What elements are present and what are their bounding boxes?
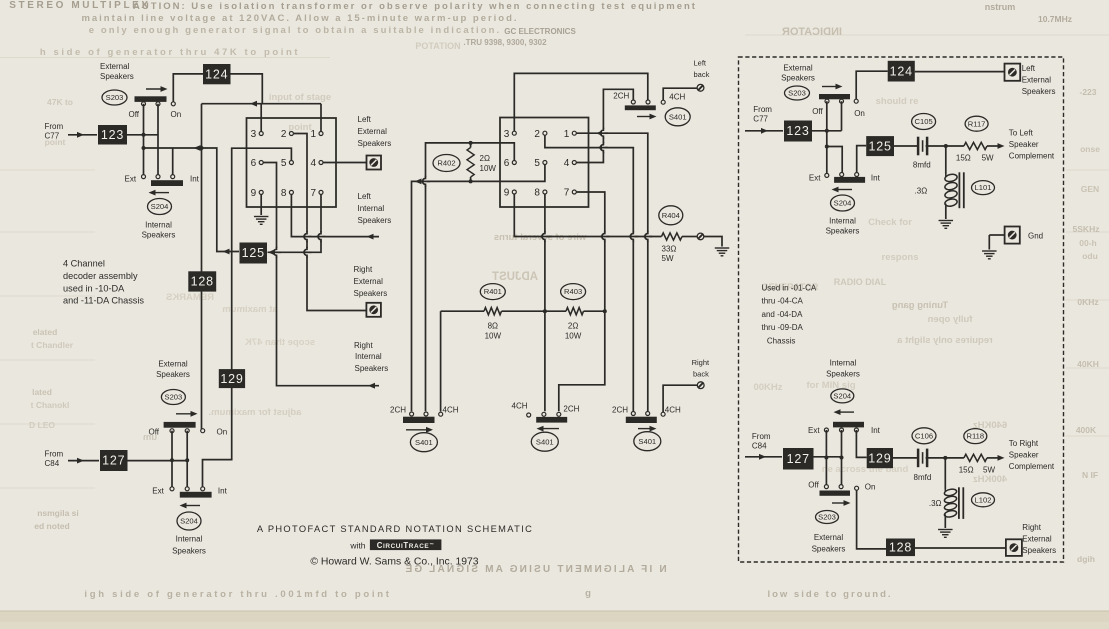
svg-text:8mfd: 8mfd [913, 161, 931, 170]
wire 125 to C105 [894, 145, 917, 147]
svg-text:at maximum: at maximum [222, 304, 277, 315]
wire 4CH to Right back terminal [663, 385, 697, 412]
svg-text:9: 9 [251, 188, 257, 199]
svg-text:Speaker: Speaker [1009, 140, 1039, 149]
svg-text:Internal: Internal [145, 221, 172, 230]
svg-text:t Chanokl: t Chanokl [31, 400, 70, 410]
svg-text:6: 6 [251, 158, 257, 169]
wire grid2 pin8 down to middle S401 [544, 195, 546, 412]
svg-text:Int: Int [871, 426, 881, 435]
wire pole vertical (upper-right) [841, 101, 843, 131]
wire Off terminals down to Ext bar [171, 431, 173, 487]
wire grid2 pin4 to top S401 2CH [576, 89, 633, 162]
svg-text:Speakers: Speakers [358, 139, 392, 148]
svg-text:400KHz: 400KHz [973, 474, 1008, 485]
svg-text:R402: R402 [437, 159, 455, 168]
svg-text:5W: 5W [662, 254, 674, 263]
inductor L101 label [972, 181, 995, 195]
svg-text:10.7MHz: 10.7MHz [1038, 14, 1072, 24]
svg-text:S401: S401 [536, 437, 554, 446]
svg-text:g: g [585, 588, 591, 599]
svg-text:C84: C84 [45, 459, 60, 468]
svg-text:9: 9 [504, 188, 510, 199]
svg-text:5SKHz: 5SKHz [1073, 224, 1100, 234]
resistor R117 [964, 142, 987, 149]
svg-text:and -11-DA Chassis: and -11-DA Chassis [63, 296, 144, 306]
switch S203 (upper-left) [102, 90, 127, 105]
svg-text:Speakers: Speakers [826, 370, 860, 379]
terminal Gnd [1005, 227, 1020, 244]
svg-text:2Ω: 2Ω [480, 154, 490, 163]
S204 actuation arrow [153, 192, 169, 194]
switch S203 (lower-right) [816, 511, 839, 524]
svg-text:Speakers: Speakers [156, 370, 190, 379]
svg-text:maintain line voltage at 120VA: maintain line voltage at 120VAC. Allow a… [81, 13, 518, 24]
wire node row y104 [202, 103, 322, 105]
svg-text:From: From [752, 432, 771, 441]
svg-text:S204: S204 [180, 517, 198, 526]
svg-text:To Right: To Right [1009, 439, 1039, 448]
svg-text:onse: onse [1080, 144, 1100, 154]
svg-text:2CH: 2CH [613, 92, 629, 101]
svg-text:STEREO MULTIPLEX: STEREO MULTIPLEX [9, 0, 150, 11]
svg-text:7: 7 [310, 188, 316, 199]
inductor L101 [945, 146, 947, 174]
wire 129 to C106 [893, 457, 917, 459]
wire Off/Ext vertical [143, 104, 145, 177]
svg-text:4CH: 4CH [443, 406, 459, 415]
svg-text:40KH: 40KH [1077, 359, 1099, 369]
circuitrace box 125 (right) [866, 136, 894, 156]
svg-text:requires only slight a: requires only slight a [897, 335, 993, 346]
svg-text:5W: 5W [982, 154, 994, 163]
svg-text:15Ω: 15Ω [956, 154, 971, 163]
wire crossover jogs [306, 232, 309, 240]
wire 123 to switch (right) [812, 130, 842, 132]
S203 lower-left terminals [170, 429, 174, 433]
wire On to 128 (right) [857, 490, 886, 549]
ground (L101) [939, 221, 954, 229]
svg-text:Ext: Ext [152, 486, 164, 495]
svg-text:.3Ω: .3Ω [929, 499, 942, 508]
svg-text:adjust for maximum.: adjust for maximum. [209, 407, 302, 418]
svg-text:125: 125 [868, 139, 891, 153]
svg-text:00-h: 00-h [1079, 238, 1096, 248]
svg-text:7: 7 [564, 188, 570, 199]
ground (grid1 pin9) [254, 217, 269, 225]
svg-text:10W: 10W [480, 164, 497, 173]
connector grid 2 outline [500, 118, 589, 208]
svg-text:47K to: 47K to [47, 97, 73, 107]
svg-text:Speakers: Speakers [142, 231, 176, 240]
terminal Right External Speakers (right section) [1006, 539, 1022, 556]
svg-text:R117: R117 [968, 119, 986, 128]
svg-text:00KHz: 00KHz [753, 382, 782, 393]
svg-text:On: On [171, 110, 182, 119]
wire grid1 pin2 to Right External Speakers [293, 134, 366, 311]
svg-text:ne across the band: ne across the band [822, 464, 909, 475]
ground (L102) [938, 530, 953, 538]
S203 arrow (upper-right) [822, 86, 838, 88]
switch S401 oval (bottom-middle) [531, 432, 558, 451]
S203 arrow (lower-left) [176, 413, 193, 415]
svg-text:External: External [783, 64, 813, 73]
svg-text:Ext: Ext [125, 175, 137, 184]
circuitrace box 124 (left) [203, 64, 231, 84]
svg-text:3: 3 [251, 129, 257, 140]
svg-text:External: External [814, 533, 844, 542]
svg-text:C77: C77 [45, 132, 60, 141]
wire From C77 into 123 [68, 134, 97, 136]
svg-text:GC ELECTRONICS: GC ELECTRONICS [504, 27, 576, 36]
wire Int to 125 (right) [857, 146, 867, 173]
svg-text:Check for: Check for [868, 217, 912, 228]
wire 124 to Left External Speakers terminal [915, 71, 1005, 73]
wire 124 to node row [231, 74, 263, 104]
S204 arrow (lower-right) [838, 411, 854, 413]
svg-text:Int: Int [871, 174, 881, 183]
svg-text:© Howard W. Sams & Co., Inc. 1: © Howard W. Sams & Co., Inc. 1973 [310, 556, 478, 567]
wire grid1 pin 3 up [260, 104, 262, 132]
svg-text:2CH: 2CH [612, 406, 628, 415]
S203 arrow (lower-right) [832, 502, 846, 504]
svg-text:Internal: Internal [176, 535, 203, 544]
svg-text:Ext: Ext [809, 174, 821, 183]
wire R401/R403 row [440, 311, 442, 411]
svg-text:4CH: 4CH [512, 402, 528, 411]
svg-text:10W: 10W [565, 332, 582, 341]
circuitrace box 125 (left) [240, 243, 268, 264]
svg-text:S203: S203 [788, 89, 806, 98]
wire grid2 pin3 to top S401 [514, 73, 648, 131]
svg-text:123: 123 [786, 124, 809, 138]
resistor R402 label [433, 155, 460, 172]
svg-text:Right: Right [692, 358, 710, 367]
svg-text:Complement: Complement [1009, 152, 1055, 161]
svg-text:8mfd: 8mfd [914, 473, 932, 482]
switch bar S401 bottom-middle [536, 417, 567, 423]
svg-text:To Left: To Left [1009, 129, 1034, 138]
svg-text:GEN: GEN [1081, 184, 1099, 194]
resistor R403 label [561, 284, 586, 300]
wire node to Ext bar terminal [827, 147, 842, 173]
wire Off/Ext vertical (upper-right) [826, 101, 828, 175]
S204 lower-left terminals [170, 487, 174, 491]
terminal Left External Speakers (right section) [1005, 64, 1021, 81]
svg-text:back: back [693, 369, 709, 378]
wire R404 to ground [704, 237, 722, 247]
wire C106 to R118 [926, 457, 964, 459]
svg-text:External: External [358, 127, 388, 136]
circuitrace box 123 (right) [784, 121, 812, 142]
switch S203 (lower-left) [161, 390, 185, 405]
svg-text:2: 2 [534, 129, 540, 140]
svg-text:Internal: Internal [830, 359, 857, 368]
switch S401 oval (top) [665, 108, 690, 126]
svg-text:3: 3 [504, 129, 510, 140]
svg-text:6: 6 [504, 158, 510, 169]
S401 top arrow [637, 116, 652, 118]
inductor L102 [944, 458, 946, 489]
connector grid 1 outline [247, 118, 337, 207]
switch bar S204 upper-right [834, 177, 865, 183]
capacitor C105 [918, 137, 927, 156]
svg-text:8: 8 [534, 188, 540, 199]
wire grid1 pin6 to Right Internal Speakers [263, 163, 379, 386]
svg-text:igh side of generator thru .00: igh side of generator thru .001mfd to po… [84, 589, 391, 600]
svg-text:S204: S204 [151, 202, 169, 211]
svg-text:2: 2 [281, 129, 287, 140]
svg-text:N IF: N IF [1082, 470, 1098, 480]
svg-text:Internal: Internal [358, 204, 385, 213]
svg-text:should re: should re [876, 96, 919, 107]
wire 127 to switch (right) [814, 456, 842, 458]
switch bar S204 lower-right (Ext/Int) [833, 422, 864, 428]
svg-text:Speakers: Speakers [1022, 87, 1056, 96]
svg-text:decoder assembly: decoder assembly [63, 271, 138, 281]
svg-text:thru -09-DA: thru -09-DA [762, 323, 804, 332]
switch bar S203 upper-left [135, 96, 167, 102]
wire grid2 pin5 / R402 bottom to bottom-left S401 [412, 165, 545, 412]
terminal Left External Speakers (left section) [367, 156, 382, 170]
svg-text:scope than 47K: scope than 47K [245, 337, 315, 348]
svg-text:C77: C77 [753, 115, 768, 124]
resistor R118 label [964, 429, 987, 444]
svg-text:2CH: 2CH [563, 405, 579, 414]
grid1 terminals and pin numbers [259, 132, 263, 136]
wire On to 124 (right) [856, 71, 888, 99]
svg-text:4: 4 [310, 158, 316, 169]
wire long vertical to 128 and On [201, 104, 203, 430]
circuitrace box 129 (right) [867, 448, 893, 468]
circuitrace box 128 (left) [188, 271, 216, 291]
svg-text:fully open: fully open [927, 314, 972, 325]
svg-text:wire of several turns: wire of several turns [494, 232, 587, 243]
S203 terminals [142, 102, 146, 106]
svg-text:Right: Right [354, 341, 373, 350]
wire From C84 into 127 [68, 460, 99, 462]
svg-text:External: External [1022, 535, 1052, 544]
svg-text:h side of generator thru 47K t: h side of generator thru 47K to point [40, 47, 300, 58]
svg-text:1: 1 [564, 129, 570, 140]
svg-text:ed noted: ed noted [34, 521, 69, 531]
svg-text:AUTION: Use isolation transfor: AUTION: Use isolation transformer or obs… [133, 1, 697, 12]
resistor R403 [584, 310, 605, 312]
svg-text:-223: -223 [1079, 87, 1096, 97]
svg-text:dgih: dgih [1077, 554, 1095, 564]
svg-text:thru -04-CA: thru -04-CA [762, 297, 804, 306]
svg-text:L101: L101 [975, 183, 992, 192]
svg-text:0KHz: 0KHz [1077, 297, 1098, 307]
svg-text:C105: C105 [915, 117, 933, 126]
svg-text:33Ω: 33Ω [662, 245, 677, 254]
inductor L102 label [972, 493, 995, 507]
svg-text:.TRU 9398, 9300, 9302: .TRU 9398, 9300, 9302 [463, 38, 547, 47]
dashed enclosure (right section) [739, 57, 1064, 562]
svg-text:2CH: 2CH [390, 406, 406, 415]
svg-text:Speaker: Speaker [1009, 451, 1039, 460]
circuitrace box 127 (right) [783, 448, 814, 470]
svg-text:4 Channel: 4 Channel [63, 259, 105, 269]
svg-text:Left: Left [358, 115, 372, 124]
wire grid2 pin6 / R402 top to bottom-left S401 [426, 143, 515, 411]
capacitor C106 label [912, 428, 936, 444]
svg-text:R403: R403 [564, 287, 582, 296]
wire node 148 horizontal to 125 [144, 148, 240, 252]
svg-text:Gnd: Gnd [1028, 232, 1043, 241]
svg-text:Speakers: Speakers [1022, 546, 1056, 555]
svg-text:Speakers: Speakers [172, 547, 206, 556]
switch bar S204 lower-left [180, 492, 212, 498]
svg-text:S401: S401 [638, 437, 656, 446]
svg-text:R118: R118 [967, 432, 985, 441]
svg-text:129: 129 [868, 451, 891, 465]
wire to grid1 pin 1 [320, 104, 322, 132]
wire grid1 pin4 to Left External Speakers [323, 162, 366, 164]
svg-text:Int: Int [190, 175, 200, 184]
svg-text:5: 5 [534, 158, 540, 169]
wire 123 to switch [127, 134, 158, 136]
svg-text:Ext: Ext [808, 426, 820, 435]
svg-text:127: 127 [787, 452, 810, 466]
resistor R117 label [965, 116, 988, 131]
switch bar S203 lower-right [820, 491, 851, 496]
svg-text:Internal: Internal [355, 352, 382, 361]
S204 arrow (upper-right) [836, 189, 852, 191]
svg-text:128: 128 [191, 275, 214, 289]
svg-text:400K: 400K [1076, 425, 1097, 435]
svg-text:used in -10-DA: used in -10-DA [63, 283, 125, 293]
svg-text:Speakers: Speakers [812, 545, 846, 554]
wire grid2 pin2 to right bottom S401 [545, 135, 633, 411]
wire grid2 pin7 to middle S401 [559, 192, 605, 411]
wire R117 out [987, 145, 998, 147]
switch S204 (lower-left) [177, 512, 201, 530]
ground (Gnd terminal) [982, 251, 997, 259]
grid2 terminals and pin numbers [512, 131, 516, 135]
svg-text:Internal: Internal [829, 217, 856, 226]
svg-text:Used in -01-CA: Used in -01-CA [762, 284, 817, 293]
S204 terminals (upper-right) [825, 173, 829, 177]
switch S204 (lower-right) [831, 389, 854, 403]
svg-text:15Ω: 15Ω [959, 466, 974, 475]
svg-text:Speakers: Speakers [100, 72, 134, 81]
svg-text:C84: C84 [752, 442, 767, 451]
svg-text:nsmgila si: nsmgila si [37, 508, 79, 518]
wire C105 to R117 [926, 145, 964, 147]
svg-text:L102: L102 [975, 495, 992, 504]
svg-text:INDICATOR: INDICATOR [782, 26, 842, 38]
svg-text:Speakers: Speakers [826, 227, 860, 236]
svg-text:Off: Off [149, 428, 160, 437]
svg-text:10W: 10W [485, 332, 502, 341]
svg-text:On: On [865, 483, 876, 492]
svg-text:S203: S203 [106, 93, 124, 102]
svg-text:Complement: Complement [1009, 462, 1055, 471]
svg-text:R401: R401 [484, 287, 502, 296]
switch bar S203 upper-right [819, 94, 850, 99]
svg-text:Int: Int [218, 486, 228, 495]
svg-text:On: On [217, 428, 228, 437]
wire grid1 pin5 through 129 to Int [203, 148, 292, 487]
svg-text:1: 1 [310, 129, 316, 140]
switch bar S204 upper-left [151, 180, 183, 186]
wire grid2 pin1 to right bottom S401 [576, 133, 648, 411]
switch S401 oval (bottom-right) [634, 432, 661, 451]
svg-text:On: On [854, 109, 865, 118]
wire Int terminal up [172, 148, 174, 177]
svg-text:4: 4 [564, 158, 570, 169]
svg-text:Speakers: Speakers [355, 364, 389, 373]
svg-text:124: 124 [205, 67, 228, 81]
resistor R401 label [480, 284, 505, 300]
svg-text:124: 124 [890, 64, 913, 78]
switch S204 (upper-right) [831, 195, 855, 211]
svg-text:C106: C106 [915, 431, 933, 440]
wire grid2 pin9 to R404 [514, 195, 661, 237]
switch S204 (upper-left) [148, 199, 172, 215]
svg-text:External: External [354, 277, 384, 286]
svg-text:123: 123 [101, 128, 124, 142]
svg-text:Off: Off [129, 110, 140, 119]
svg-text:D LEO: D LEO [29, 420, 55, 430]
terminal Right External Speakers (left section) [366, 303, 381, 317]
switch S401 oval (bottom-left) [410, 433, 437, 452]
svg-text:129: 129 [220, 372, 243, 386]
svg-text:odu: odu [1082, 251, 1098, 261]
capacitor C106 [918, 449, 927, 468]
S203 actuation arrow [146, 88, 163, 90]
svg-text:From: From [45, 122, 64, 131]
capacitor C105 label [912, 114, 936, 130]
svg-text:S203: S203 [818, 513, 836, 522]
wire 127 to switch [128, 460, 188, 462]
svg-text:127: 127 [102, 454, 125, 468]
wire grid1 pin8 to Left Internal Speakers [291, 194, 379, 236]
svg-text:125: 125 [242, 246, 265, 260]
svg-text:Speakers: Speakers [354, 289, 388, 298]
resistor R402 [469, 141, 473, 145]
S203 terminals (lower-right Off/On) [824, 485, 828, 489]
svg-text:External: External [1022, 76, 1052, 85]
resistor R401 [502, 310, 567, 312]
wire pole vertical (lower-right) [841, 430, 843, 487]
circuitrace box 129 (left) [219, 369, 245, 388]
switch S203 (upper-right) [785, 86, 810, 100]
svg-text:Right: Right [354, 265, 373, 274]
switch bar S401 bottom-right [626, 417, 657, 423]
switch bar S401 top [625, 105, 656, 110]
wire 128 to Right External Speakers terminal [915, 547, 1006, 549]
svg-text:CIRCUITRACE™: CIRCUITRACE™ [377, 541, 435, 550]
wire grid1 pin9 to ground [260, 194, 262, 215]
svg-text:External: External [100, 62, 130, 71]
wire On terminal to 124 [173, 74, 203, 102]
wire grid1 pin7 to 125 [268, 194, 322, 252]
svg-text:and -04-DA: and -04-DA [762, 310, 804, 319]
circuitrace box 123 (left) [98, 125, 127, 145]
svg-text:ADJUST: ADJUST [492, 271, 538, 283]
circuitrace box 124 (right) [888, 61, 915, 82]
svg-text:S203: S203 [165, 393, 183, 402]
svg-text:R404: R404 [662, 211, 680, 220]
svg-text:128: 128 [889, 541, 912, 555]
svg-text:2Ω: 2Ω [568, 322, 578, 331]
S204 terminals (upper-left) [142, 175, 146, 179]
svg-text:S401: S401 [669, 112, 687, 121]
circuitrace box 128 (right) [886, 539, 915, 557]
svg-text:8Ω: 8Ω [488, 322, 498, 331]
